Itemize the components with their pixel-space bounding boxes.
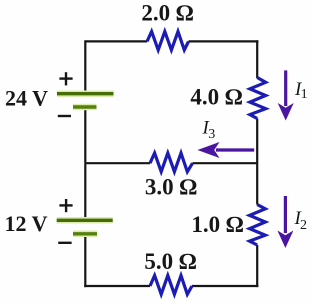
wire bottom-right segment — [192, 285, 258, 287]
battery 12V minus sign — [58, 242, 71, 244]
wire right middle (4.0 ohm through node B to 1.0 ohm) — [256, 119, 258, 205]
wire left upper (top corner to 24V battery) — [84, 40, 86, 93]
battery 12V negative plate (short) — [73, 231, 97, 238]
wire top-left segment — [85, 40, 147, 42]
battery 24V negative plate (short) — [73, 104, 97, 111]
wire middle-right segment (3.0 ohm to node B) — [193, 162, 258, 164]
battery 24V plus sign — [59, 72, 72, 85]
wire right upper (top corner to 4.0 ohm) — [256, 40, 258, 78]
wire bottom-left segment — [84, 285, 150, 287]
current arrow I2 (down, right lower) — [277, 196, 293, 248]
resistor 3.0 ohm (middle) — [150, 153, 193, 172]
wire middle-left segment (node A to 3.0 ohm) — [85, 162, 150, 164]
svg-text:4.0 Ω: 4.0 Ω — [190, 84, 243, 109]
svg-text:1: 1 — [301, 87, 308, 102]
battery 24V positive plate (long) — [57, 90, 114, 97]
wire top-right segment — [189, 40, 259, 42]
wire left lower (node A to 12V battery) — [84, 163, 86, 219]
svg-text:3.0 Ω: 3.0 Ω — [145, 175, 198, 200]
battery 12V plus sign — [59, 199, 72, 212]
resistor 5.0 ohm (bottom) — [150, 276, 192, 295]
resistor 2.0 ohm (top) — [147, 32, 189, 51]
battery 12V positive plate (long) — [57, 217, 113, 224]
svg-text:1.0 Ω: 1.0 Ω — [191, 212, 244, 237]
svg-text:3: 3 — [208, 127, 215, 142]
wire left middle (24V battery to node A) — [84, 107, 86, 163]
svg-text:24 V: 24 V — [5, 86, 48, 111]
wire right lower (1.0 ohm to bottom corner) — [256, 245, 258, 287]
battery 24V minus sign — [58, 115, 71, 117]
resistor 4.0 ohm (right upper) — [250, 78, 266, 119]
resistor 1.0 ohm (right lower) — [250, 205, 266, 246]
svg-text:12 V: 12 V — [5, 211, 48, 236]
current arrow I1 (down, right upper) — [278, 70, 294, 120]
svg-text:5.0 Ω: 5.0 Ω — [144, 249, 197, 274]
svg-text:2: 2 — [300, 218, 307, 233]
current arrow I3 (left, above middle wire) — [198, 142, 255, 158]
svg-text:2.0 Ω: 2.0 Ω — [141, 1, 194, 26]
wire left bottom (12V battery to bottom corner) — [84, 234, 86, 288]
